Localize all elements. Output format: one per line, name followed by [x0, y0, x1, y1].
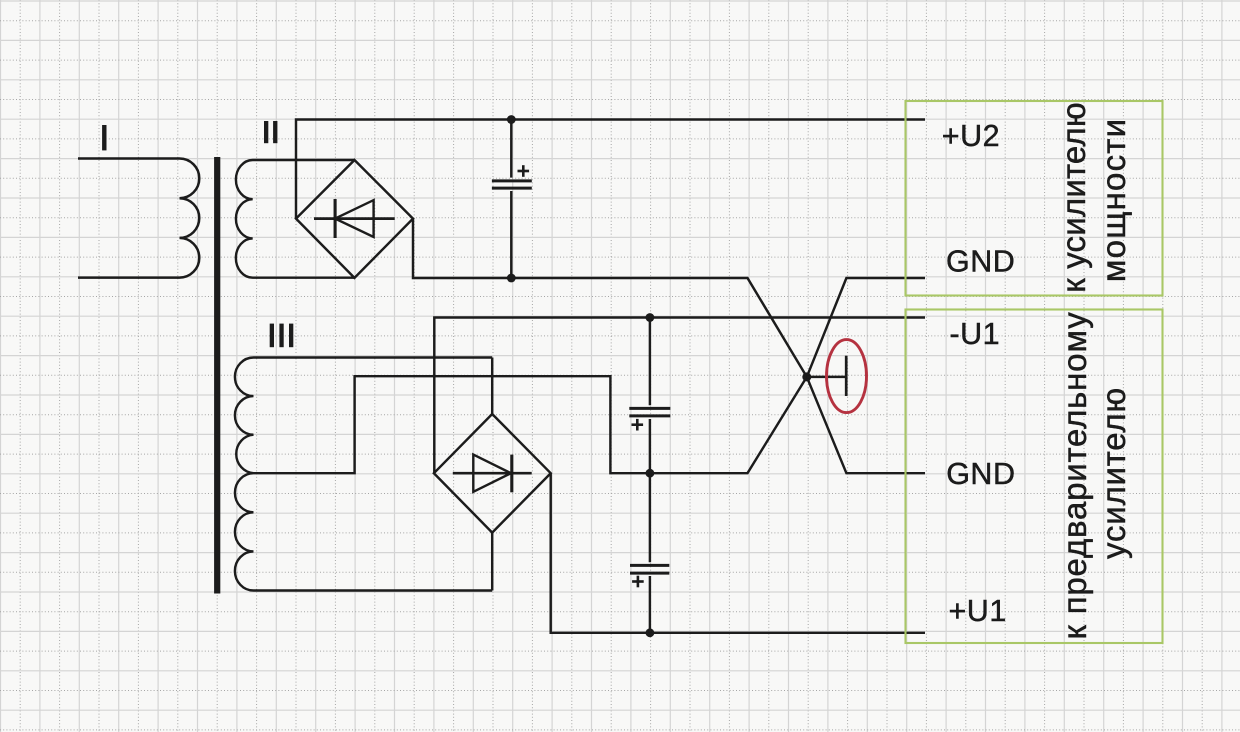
svg-text:GND: GND: [946, 457, 1015, 491]
svg-text:к предварительному: к предварительному: [1056, 312, 1093, 640]
svg-text:GND: GND: [946, 244, 1015, 278]
svg-text:мощности: мощности: [1095, 118, 1132, 282]
svg-text:+U1: +U1: [949, 594, 1007, 628]
svg-text:+U2: +U2: [942, 119, 1000, 153]
svg-text:усилителю: усилителю: [1095, 387, 1132, 559]
svg-text:-U1: -U1: [950, 317, 1001, 351]
svg-text:к усилителю: к усилителю: [1055, 102, 1092, 293]
